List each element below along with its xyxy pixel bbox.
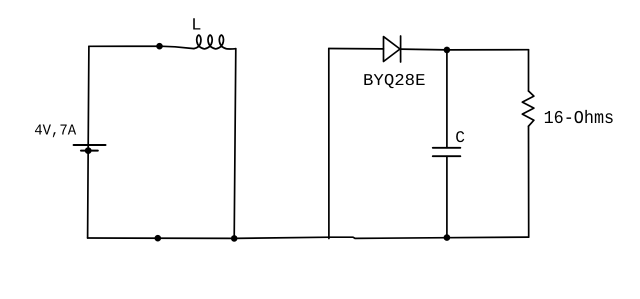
svg-text:BYQ28E: BYQ28E bbox=[363, 71, 426, 90]
svg-text:C: C bbox=[455, 129, 465, 147]
svg-text:16-Ohms: 16-Ohms bbox=[544, 109, 615, 129]
svg-text:4V,7A: 4V,7A bbox=[34, 122, 77, 140]
svg-text:L: L bbox=[191, 16, 201, 35]
